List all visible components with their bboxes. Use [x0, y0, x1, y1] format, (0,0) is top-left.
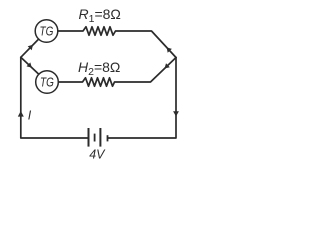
svg-text:TG: TG	[40, 77, 54, 90]
svg-text:4V: 4V	[89, 148, 106, 162]
svg-text:I: I	[28, 109, 32, 123]
svg-text:TG: TG	[40, 26, 54, 39]
